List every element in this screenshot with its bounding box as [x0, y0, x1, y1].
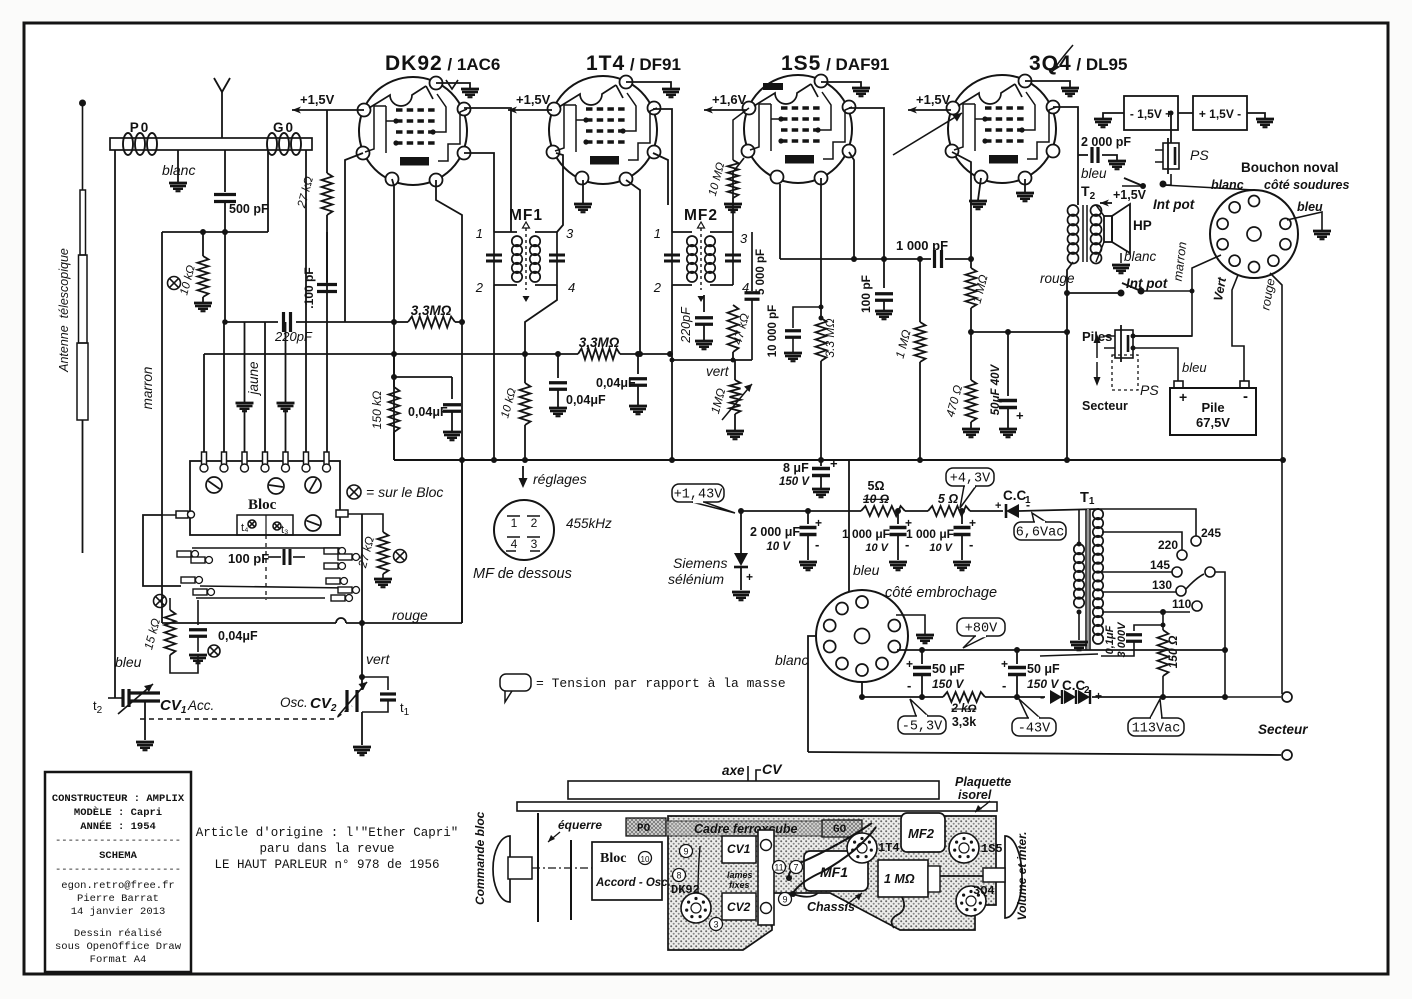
- svg-text:0,04μF: 0,04μF: [408, 405, 448, 419]
- svg-text:bleu: bleu: [1081, 166, 1107, 181]
- svg-text:MF1: MF1: [820, 864, 848, 880]
- svg-text:-: -: [1002, 678, 1006, 693]
- svg-text:5Ω: 5Ω: [868, 479, 885, 493]
- wire MF1 pin3 up to 1T4: [556, 153, 563, 232]
- svg-text:150 V: 150 V: [779, 476, 810, 488]
- svg-text:Secteur: Secteur: [1258, 722, 1308, 737]
- resistor 3,3MOhm (AGC 2): [578, 335, 620, 360]
- svg-text:2: 2: [653, 280, 662, 295]
- svg-text:+1,5V: +1,5V: [1113, 188, 1147, 202]
- svg-text:+: +: [1179, 389, 1187, 405]
- svg-text:3 000V: 3 000V: [1116, 621, 1128, 658]
- svg-text:+: +: [1001, 657, 1008, 671]
- capacitor 50uF #2: [1001, 650, 1060, 697]
- dash-dot axis: [532, 867, 600, 869]
- resistor 470Ohm: [943, 332, 980, 437]
- wire noval bleu to ground: [1287, 200, 1331, 239]
- +1,5V supply 3Q4: [908, 92, 951, 114]
- wire MF2 pin3 to 1S5 grid: [733, 158, 744, 232]
- svg-text:+: +: [969, 516, 976, 530]
- wire rouge from noval: [1258, 273, 1282, 694]
- wire vert from noval: [1211, 275, 1244, 381]
- svg-text:3Q4 / DL95: 3Q4 / DL95: [1029, 52, 1127, 75]
- svg-text:Format A4: Format A4: [90, 954, 147, 966]
- svg-text:2 kΩ: 2 kΩ: [951, 703, 977, 715]
- circled numbers: [673, 845, 803, 931]
- resistor 150 Ohm: [1158, 623, 1181, 698]
- capacitor 2000uF 10V: [750, 511, 822, 570]
- wire 1T4 bottom-right pin down: [626, 180, 640, 354]
- svg-text:Accord - Osc.: Accord - Osc.: [595, 877, 671, 889]
- svg-text:8 μF: 8 μF: [783, 461, 809, 475]
- +1,5V supply 1T4: [508, 92, 552, 114]
- coil G0: [267, 120, 301, 155]
- resistor 5 Ohm #2: [928, 492, 970, 516]
- small v mark: [446, 80, 458, 89]
- svg-text:4: 4: [511, 537, 518, 551]
- svg-text:SCHEMA: SCHEMA: [99, 850, 138, 862]
- svg-text:bleu: bleu: [1297, 200, 1323, 214]
- svg-text:+1,5V: +1,5V: [300, 92, 335, 107]
- svg-text:245: 245: [1201, 526, 1221, 540]
- callout 6,6Vac: [1032, 513, 1046, 522]
- label 1S5 / DAF91: [781, 52, 889, 75]
- svg-text:2 000 pF: 2 000 pF: [1081, 135, 1131, 149]
- svg-text:10 V: 10 V: [766, 541, 791, 553]
- capacitor 8uF 150V: [779, 456, 838, 497]
- battery 1,5V #1: [1124, 96, 1178, 130]
- svg-text:Cadre ferroxcube: Cadre ferroxcube: [694, 822, 798, 836]
- antenna V symbol: [214, 78, 230, 138]
- svg-text:blanc: blanc: [775, 652, 808, 668]
- label plaquette isorel: [955, 775, 1011, 812]
- wire 1S5 diode pin down to detector line: [779, 184, 781, 259]
- GO block: [822, 820, 862, 837]
- svg-text:MODÈLE : Capri: MODÈLE : Capri: [74, 805, 162, 819]
- svg-text:67,5V: 67,5V: [1196, 415, 1230, 430]
- bloc screws: [206, 477, 321, 531]
- wire T2 primary bottom (rouge): [1040, 262, 1075, 460]
- dashed gang line: [140, 706, 352, 719]
- battery Pile 67,5V: [1170, 381, 1256, 435]
- wire rail to rouge right: [1280, 457, 1286, 463]
- svg-text:rouge: rouge: [1040, 271, 1075, 286]
- main B- rail y460: [394, 457, 1283, 463]
- PO block: [626, 818, 666, 836]
- coil P0: [123, 120, 157, 155]
- svg-text:1T4 / DF91: 1T4 / DF91: [586, 52, 681, 75]
- bloc trimmer box t4 t3: [237, 515, 293, 536]
- grounds 3Q4 bottom: [969, 178, 1034, 209]
- wire node line y232: [162, 229, 268, 235]
- socket 1S5: [949, 833, 1003, 863]
- wire rouge from bloc: [361, 514, 363, 623]
- capacitor 0,04uF (AVC 2): [596, 351, 647, 414]
- svg-text:500 pF: 500 pF: [229, 202, 269, 216]
- svg-text:jaune: jaune: [246, 361, 261, 396]
- svg-text:LE HAUT PARLEUR n° 978 de 1956: LE HAUT PARLEUR n° 978 de 1956: [214, 858, 439, 872]
- lames fixes note: [727, 870, 753, 890]
- svg-text:côté soudures: côté soudures: [1264, 178, 1349, 192]
- svg-text:220pF: 220pF: [274, 329, 313, 344]
- socket 1T4: [847, 833, 900, 863]
- capacitor 0,04uF (AVC 1): [549, 351, 606, 416]
- switch Int pot (HT+): [1122, 174, 1195, 212]
- resistor 15kOhm: [141, 595, 198, 674]
- wire AVC to bloc pin1: [204, 353, 394, 355]
- svg-text:+: +: [1095, 689, 1102, 703]
- svg-text:50 μF: 50 μF: [932, 662, 965, 676]
- callout 113Vac: [1150, 699, 1162, 718]
- antenna telescopique: [57, 100, 88, 554]
- secteur terminals: [1225, 692, 1308, 760]
- capacitor 1000uF #1: [842, 511, 912, 570]
- svg-text:+1,5V: +1,5V: [916, 92, 951, 107]
- svg-text:1T4: 1T4: [878, 841, 900, 855]
- CV1 box: [722, 836, 756, 863]
- svg-text:axe: axe: [722, 763, 745, 778]
- +1,5V label near T2: [1100, 188, 1147, 207]
- svg-text:3: 3: [566, 226, 574, 241]
- svg-text:+1,43V: +1,43V: [674, 488, 724, 503]
- label cadre ferroxcube: [694, 822, 798, 836]
- article note: [196, 826, 459, 872]
- wire DK92 bottom-left pin to divider: [392, 179, 394, 460]
- svg-text:Secteur: Secteur: [1082, 399, 1128, 413]
- svg-text:côté embrochage: côté embrochage: [885, 585, 997, 601]
- svg-text:Pierre Barrat: Pierre Barrat: [77, 893, 159, 905]
- capacitor 1000pF: [896, 238, 948, 268]
- socket 3Q4: [956, 884, 995, 916]
- capacitor 100pF (osc): [302, 232, 337, 309]
- T1 primary bottom wire: [1040, 654, 1098, 656]
- svg-text:145: 145: [1150, 558, 1170, 572]
- grounds above bloc pins: [236, 322, 295, 411]
- svg-text:11: 11: [774, 863, 783, 873]
- svg-text:3: 3: [740, 231, 748, 246]
- svg-text:+: +: [815, 516, 822, 530]
- svg-text:14 janvier 2013: 14 janvier 2013: [71, 906, 166, 918]
- svg-text:110: 110: [1172, 597, 1192, 611]
- resistor 3,3MOhm (AGC 1): [391, 303, 465, 328]
- svg-text:1S5: 1S5: [981, 842, 1003, 856]
- svg-text:3,3MΩ: 3,3MΩ: [579, 335, 620, 350]
- svg-text:Plaquette: Plaquette: [955, 775, 1011, 789]
- svg-text:équerre: équerre: [558, 818, 602, 832]
- +1,6V supply 1S5: [704, 92, 747, 114]
- noval plug circle: [1210, 190, 1298, 278]
- svg-text:+80V: +80V: [965, 622, 998, 637]
- svg-text:0,04μF: 0,04μF: [566, 393, 606, 407]
- svg-text:8: 8: [676, 871, 681, 881]
- ground battery2 right: [1247, 113, 1274, 127]
- label marron: [140, 367, 155, 410]
- reglages arrow: [519, 466, 587, 488]
- svg-text:+: +: [830, 456, 838, 471]
- svg-text:Pile: Pile: [1201, 400, 1224, 415]
- wire 1S5 anode down 3.3M: [820, 178, 822, 318]
- wire P0 left down (bleu to CV1): [114, 150, 116, 690]
- svg-text:ANNÉE : 1954: ANNÉE : 1954: [80, 819, 156, 833]
- svg-text:paru dans la revue: paru dans la revue: [259, 842, 394, 856]
- chassis front bar: [517, 802, 997, 811]
- label 1T4 / DF91: [586, 52, 681, 75]
- bias line y697: [859, 682, 1045, 700]
- variable capacitor CV1: [115, 684, 214, 750]
- svg-text:CV: CV: [762, 761, 783, 777]
- svg-text:9: 9: [782, 895, 787, 905]
- capacitor 0,1uF 3000V: [1101, 612, 1163, 657]
- svg-text:+: +: [995, 500, 1001, 512]
- svg-text:1: 1: [511, 516, 518, 530]
- volume knob: [940, 832, 1029, 921]
- wire marron from noval: [1133, 241, 1221, 336]
- resistor 10kOhm + sur-le-bloc mark: [168, 232, 213, 311]
- wire MF1 pin4 down: [525, 285, 557, 354]
- resistor 3.3MOhm (1S5 anode load): [816, 318, 838, 460]
- capacitor 50uF 40V: [990, 332, 1024, 437]
- Bouchon noval labels: [1241, 160, 1349, 192]
- resistor 5 Ohm (was 10): [861, 479, 905, 516]
- svg-text:= sur le Bloc: = sur le Bloc: [366, 484, 443, 500]
- CV2 box: [722, 893, 756, 920]
- tube 1S5/DAF91 (U3): [742, 75, 856, 185]
- plug circle cote embrochage: [816, 590, 908, 682]
- svg-text:130: 130: [1152, 578, 1172, 592]
- svg-text:t₃: t₃: [281, 524, 289, 536]
- selenium rectifier: [668, 511, 753, 600]
- wire jaune vertical (pin 4): [264, 322, 266, 452]
- svg-text:10 Ω: 10 Ω: [863, 492, 890, 506]
- chassis main plate: [668, 816, 996, 950]
- wire batteries junction: [1169, 111, 1194, 144]
- svg-text:rouge: rouge: [392, 607, 428, 623]
- Bloc oscillator box: [190, 461, 340, 535]
- tube 1T4/DF91 (U2): [547, 76, 661, 186]
- svg-text:7: 7: [793, 863, 798, 873]
- wire MF1 pin2 down: [493, 285, 495, 460]
- svg-text:bleu: bleu: [853, 562, 880, 578]
- socket DK92: [671, 883, 711, 923]
- svg-text:-: -: [815, 537, 819, 552]
- capacitor 5000pF: [745, 232, 768, 360]
- svg-text:+ 1,5V -: + 1,5V -: [1199, 107, 1241, 121]
- svg-text:HP: HP: [1133, 218, 1152, 233]
- svg-text:-: -: [907, 678, 911, 693]
- resistor 10MOhm: [707, 108, 749, 212]
- svg-text:CV1: CV1: [727, 842, 751, 856]
- svg-text:Acc.: Acc.: [187, 698, 214, 713]
- ground 1T4 top right: [626, 82, 680, 97]
- ground DK92 top: [436, 83, 479, 97]
- diodes CC2: [1040, 678, 1228, 704]
- resistor 150kOhm: [370, 354, 400, 460]
- svg-text:3,3MΩ: 3,3MΩ: [411, 303, 452, 318]
- svg-text:Article d'origine : l'"Ether C: Article d'origine : l'"Ether Capri": [196, 826, 459, 840]
- svg-text:--------------------: --------------------: [55, 835, 181, 847]
- svg-text:vert: vert: [706, 364, 730, 379]
- chassis wires: [698, 823, 904, 928]
- trimmer t1: [362, 677, 410, 718]
- tube DK92/1AC6 (U1): [357, 77, 471, 187]
- trimmer t2: [93, 689, 129, 716]
- tube 3Q4/DL95 (U4): [946, 75, 1060, 185]
- cadre ferroxcube rod: [666, 821, 822, 836]
- switch row 2: [181, 577, 360, 602]
- ground under P0: [169, 150, 187, 191]
- svg-text:+4,3V: +4,3V: [950, 472, 991, 487]
- resistor 1MOhm (3Q4 grid): [966, 256, 991, 332]
- svg-text:GO: GO: [833, 824, 847, 836]
- svg-text:egon.retro@free.fr: egon.retro@free.fr: [61, 880, 174, 892]
- svg-text:150 kΩ: 150 kΩ: [370, 391, 384, 429]
- wire node y259: [780, 256, 971, 262]
- wire DK92 bottom-right pin down (rouge line): [436, 180, 462, 623]
- CV frame bar: [758, 830, 774, 925]
- tension note bubble: [500, 674, 786, 702]
- svg-text:10 000 pF: 10 000 pF: [767, 305, 779, 357]
- svg-text:3.3 MΩ: 3.3 MΩ: [823, 318, 837, 357]
- svg-text:G0: G0: [273, 120, 295, 135]
- pot 1MOhm box: [878, 860, 940, 897]
- svg-text:C.C: C.C: [1062, 678, 1086, 693]
- variable capacitor CV2: [280, 677, 371, 755]
- svg-text:150 Ω: 150 Ω: [1166, 635, 1180, 668]
- svg-text:1 000 μF: 1 000 μF: [906, 527, 954, 541]
- capacitor 220pF (det grid): [679, 295, 713, 349]
- svg-text:4: 4: [568, 280, 575, 295]
- svg-text:Osc.: Osc.: [280, 695, 308, 710]
- svg-text:1S5 / DAF91: 1S5 / DAF91: [781, 52, 889, 75]
- callout -5,3V: [910, 699, 928, 716]
- svg-text:1: 1: [476, 226, 483, 241]
- svg-text:bleu: bleu: [1182, 360, 1207, 375]
- switch Int pot (B+): [1064, 276, 1195, 297]
- wire 1T4 right pins to MF2: [653, 109, 672, 232]
- svg-text:220pF: 220pF: [679, 306, 693, 344]
- svg-text:Dessin réalisé: Dessin réalisé: [74, 928, 162, 940]
- bloc right terminal: [336, 510, 368, 517]
- svg-text:réglages: réglages: [533, 471, 587, 487]
- +1,5V supply DK92: [292, 92, 345, 114]
- svg-text:P0: P0: [130, 120, 151, 135]
- svg-text:CV2: CV2: [727, 900, 751, 914]
- resistor 27kOhm (bloc): [355, 514, 407, 587]
- svg-text:-: -: [969, 537, 973, 552]
- chassis dial strip: [568, 781, 939, 799]
- wire y332: [968, 329, 1070, 335]
- label jaune: [246, 361, 261, 396]
- svg-text:2 000 μF: 2 000 μF: [750, 525, 800, 539]
- svg-text:1 MΩ: 1 MΩ: [884, 872, 915, 886]
- wire plug left (blanc): [775, 636, 816, 752]
- transformer MF1: [475, 207, 575, 302]
- svg-text:3: 3: [531, 537, 538, 551]
- resistor 10kOhm (1T4 screen): [499, 354, 530, 460]
- wire 3Q4 left pin to grid: [952, 152, 971, 259]
- resistor 1MOhm (1T4 plate load): [893, 259, 926, 460]
- svg-text:3Q4: 3Q4: [973, 884, 995, 898]
- svg-text:Volume et inter.: Volume et inter.: [1015, 832, 1029, 921]
- wire 1S5 right pins down: [849, 108, 884, 259]
- svg-text:-43V: -43V: [1018, 722, 1051, 737]
- battery 1,5V #2: [1193, 96, 1247, 130]
- svg-text:3,3k: 3,3k: [952, 715, 976, 729]
- wire bloc left col: [143, 515, 181, 586]
- potentiometer 1MOhm volume: [708, 360, 752, 439]
- bloc left terminal: [162, 511, 195, 518]
- wire MF2 pin2 down: [671, 285, 673, 460]
- svg-text:CONSTRUCTEUR : AMPLIX: CONSTRUCTEUR : AMPLIX: [52, 793, 185, 805]
- svg-text:+1,5V: +1,5V: [516, 92, 551, 107]
- svg-text:bleu: bleu: [115, 654, 142, 670]
- wire plug top-right to ground: [896, 615, 934, 643]
- svg-text:2: 2: [531, 516, 538, 530]
- resistor 27kOhm (osc grid): [294, 110, 333, 452]
- label blanc (P0): [162, 162, 195, 178]
- svg-text:0,04μF: 0,04μF: [596, 376, 636, 390]
- svg-text:PS: PS: [1190, 147, 1209, 163]
- svg-text:3: 3: [713, 920, 718, 930]
- filament supply line y511: [738, 508, 1099, 514]
- svg-text:Int pot: Int pot: [1126, 276, 1168, 291]
- capacitor 500pF: [214, 150, 269, 325]
- ground 3Q4 top: [1025, 81, 1079, 96]
- ground 1T4 bottom: [574, 180, 592, 212]
- ground 1S5 top right: [821, 82, 870, 96]
- diode CC1: [995, 488, 1031, 518]
- svg-text:+: +: [746, 570, 753, 584]
- svg-text:10 V: 10 V: [865, 542, 889, 554]
- chassis label: [807, 893, 862, 914]
- svg-text:MF2: MF2: [908, 826, 935, 841]
- wire marron vertical: [161, 232, 163, 623]
- svg-text:--------------------: --------------------: [55, 864, 181, 876]
- wires bloc pins up: [204, 322, 286, 452]
- capacitor 2000pF (tone): [1078, 135, 1131, 181]
- svg-text:1: 1: [654, 226, 661, 241]
- svg-text:-5,3V: -5,3V: [902, 720, 943, 735]
- capacitor 0,04uF (osc cathode): [394, 377, 461, 440]
- arrow into 3Q4: [893, 113, 962, 155]
- svg-text:Int pot: Int pot: [1153, 197, 1195, 212]
- T1 taps: [1098, 509, 1225, 697]
- wire G0 left down: [267, 150, 269, 232]
- svg-text:DK92 / 1AC6: DK92 / 1AC6: [385, 52, 500, 75]
- svg-text:= Tension par rapport à la mas: = Tension par rapport à la masse: [536, 676, 786, 691]
- svg-text:vert: vert: [366, 651, 390, 667]
- capacitor 100pF (padder): [228, 549, 305, 566]
- callout +4,3V: [960, 486, 976, 508]
- transformer MF2: [653, 207, 749, 302]
- svg-text:2: 2: [475, 280, 484, 295]
- callout +80V: [963, 636, 987, 648]
- svg-text:113Vac: 113Vac: [1132, 722, 1181, 737]
- svg-text:150 V: 150 V: [932, 677, 964, 691]
- svg-text:1 000 pF: 1 000 pF: [896, 238, 948, 253]
- capacitor 1000uF #2: [906, 511, 976, 570]
- capacitor 0,04uF (bloc): [189, 600, 258, 663]
- wire G0 right down to Bloc pin6: [305, 150, 307, 452]
- svg-text:50μF 40V: 50μF 40V: [990, 363, 1002, 415]
- label vert (osc): [359, 623, 390, 680]
- MF de dessous circle: [494, 500, 612, 560]
- svg-text:5 Ω: 5 Ω: [938, 492, 958, 506]
- svg-text:50 μF: 50 μF: [1027, 662, 1060, 676]
- MF de dessous label: [473, 566, 572, 582]
- svg-text:Commande bloc: Commande bloc: [473, 811, 487, 905]
- svg-text:PO: PO: [637, 823, 651, 835]
